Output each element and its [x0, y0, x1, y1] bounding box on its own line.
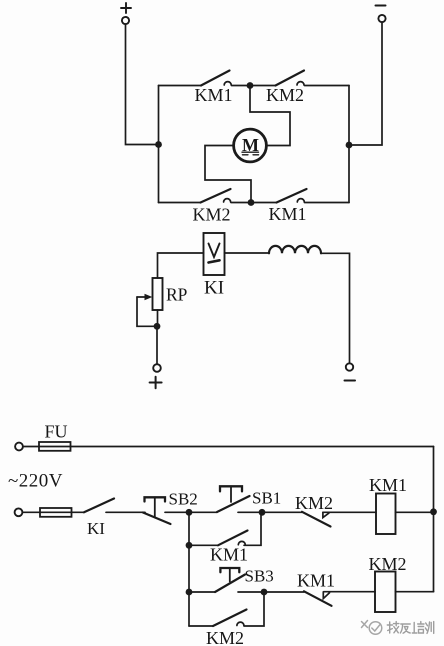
- wire (KM2 coil to right rail corner): [396, 591, 434, 593]
- wire (bottom rail left segment): [159, 202, 201, 204]
- node (right rail junction): [430, 508, 437, 515]
- wire (top rail right segment): [305, 85, 350, 87]
- wire (motor left lead to bottom junction): [205, 146, 251, 203]
- wire (control top line): [23, 446, 434, 448]
- wire (top rail mid segment): [232, 85, 251, 87]
- node (top mid junction): [247, 82, 254, 89]
- contact KM1 (NC interlock): [297, 571, 335, 606]
- terminal N (mains neutral): [15, 508, 23, 516]
- coil KM1 (forward contactor coil): [369, 475, 407, 534]
- contact KM1 (NO self-holding): [210, 531, 248, 565]
- wire (top rail segment to KM2): [250, 85, 276, 87]
- svg-text:KM2: KM2: [193, 205, 231, 225]
- svg-text:KM1: KM1: [269, 204, 307, 224]
- wire (negative feed down to right rail): [353, 22, 383, 145]
- svg-text:KI: KI: [87, 519, 105, 538]
- pushbutton SB2 (NC stop button): [143, 490, 198, 525]
- svg-text:KM2: KM2: [266, 85, 304, 105]
- node (RP wiper tie junction): [154, 323, 161, 330]
- svg-text:KM1: KM1: [297, 571, 335, 591]
- node (left column top junction): [186, 509, 193, 516]
- wire (field circuit left riser to KI): [158, 253, 204, 278]
- svg-text:RP: RP: [166, 285, 188, 305]
- svg-text:~220V: ~220V: [8, 471, 63, 492]
- wire (bottom rail right segment): [305, 202, 350, 204]
- svg-text:SB2: SB2: [169, 490, 198, 509]
- wire (wiper return): [137, 297, 157, 326]
- wire (branch to KM1 hold contact): [189, 544, 218, 546]
- node (bottom mid junction): [248, 199, 255, 206]
- fuse FU: [39, 422, 71, 451]
- wire (bottom rail segment to KM1): [251, 202, 277, 204]
- contact KM1 (NO main contact, top left): [195, 71, 233, 105]
- wire (bottom rail mid segment): [231, 202, 251, 204]
- svg-text:KM1: KM1: [195, 85, 233, 105]
- contact KM2 (NO self-holding): [206, 610, 247, 646]
- svg-text:FU: FU: [45, 422, 68, 442]
- wire (interlock to KM1 coil): [323, 511, 376, 513]
- svg-text:SB1: SB1: [252, 489, 281, 508]
- contact KI (current relay NO contact): [84, 499, 114, 539]
- contact KM1 (NO main contact, bottom right): [269, 189, 307, 224]
- terminal - (armature supply negative): [376, 6, 386, 23]
- wire (node to KM1 interlock): [264, 591, 304, 593]
- svg-text:SB3: SB3: [245, 567, 274, 586]
- wire (left column vertical): [188, 512, 190, 626]
- wire (node to KM2 interlock): [262, 511, 302, 513]
- watermark text 技成培训 (drawn strokes): [387, 622, 433, 634]
- wire (SB3 right contact to node): [238, 591, 264, 593]
- wire (inductor to right field terminal): [321, 253, 350, 363]
- potentiometer RP (rheostat): [137, 278, 188, 310]
- wire (down to field positive terminal): [156, 326, 158, 364]
- svg-text:KM2: KM2: [206, 628, 244, 646]
- terminal - (field supply negative): [345, 363, 356, 380]
- node (SB3 line junction): [186, 589, 193, 596]
- wire (KI contact to SB2): [106, 511, 145, 513]
- svg-text:KM1: KM1: [369, 475, 407, 495]
- wire (SB1 right contact to node): [238, 511, 262, 513]
- wire (node to SB3): [189, 591, 215, 593]
- wire (KM2 hold branch lower): [189, 625, 213, 627]
- svg-text:KI: KI: [204, 278, 224, 299]
- terminal + (field supply positive): [150, 364, 162, 388]
- pushbutton SB1 (NO start forward): [217, 486, 281, 512]
- node (right rail junction): [346, 142, 353, 149]
- wire (bridge right rail): [348, 86, 350, 203]
- terminal L (mains line): [15, 443, 23, 451]
- wire (interlock to KM2 coil): [324, 591, 376, 593]
- wire (control right rail): [433, 447, 435, 592]
- svg-text:KM2: KM2: [295, 493, 333, 513]
- node (SB3 output junction): [261, 589, 268, 596]
- contact KM2 (NC interlock): [295, 493, 333, 527]
- motor M (DC motor armature): [234, 129, 267, 162]
- terminal + (armature supply positive): [121, 3, 131, 24]
- node (KM1 hold branch junction): [186, 542, 193, 549]
- svg-text:KM2: KM2: [369, 554, 407, 574]
- fuse FU2: [40, 508, 72, 517]
- inductor L (field winding): [269, 246, 321, 253]
- svg-text:KM1: KM1: [210, 544, 248, 564]
- relay coil KI (current relay): [204, 233, 225, 299]
- wire (RP bottom lead): [157, 310, 159, 326]
- node (SB1 output junction): [259, 509, 266, 516]
- wire (KI to inductor): [225, 252, 270, 254]
- wire (motor top feed from mid junction): [250, 86, 290, 146]
- pushbutton SB3 (NO start reverse): [215, 567, 274, 593]
- contact KM2 (NO main contact, bottom left): [193, 189, 231, 225]
- node (left rail junction): [155, 141, 162, 148]
- wire (KM2 hold contact up to SB3 output): [244, 592, 264, 626]
- wire (KM1 coil to right rail): [396, 511, 434, 513]
- wire (KM1 hold contact up to SB1 output): [244, 512, 261, 545]
- wire (positive feed down to left rail): [126, 24, 156, 144]
- wire (bridge left rail): [158, 86, 160, 203]
- coil KM2 (reverse contactor coil): [369, 554, 407, 612]
- watermark logo: [362, 621, 382, 635]
- wire (neutral line to KI contact): [23, 511, 85, 513]
- wire (node to SB1): [189, 511, 217, 513]
- contact KM2 (NO main contact, top right): [266, 71, 304, 105]
- wire (top rail left segment): [159, 85, 202, 87]
- wire (SB2 to left node): [165, 511, 189, 513]
